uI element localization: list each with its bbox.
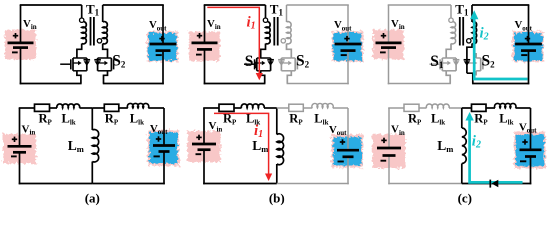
svg-text:(a): (a) xyxy=(85,191,100,206)
svg-text:(b): (b) xyxy=(269,191,285,206)
svg-text:(c): (c) xyxy=(458,191,472,206)
